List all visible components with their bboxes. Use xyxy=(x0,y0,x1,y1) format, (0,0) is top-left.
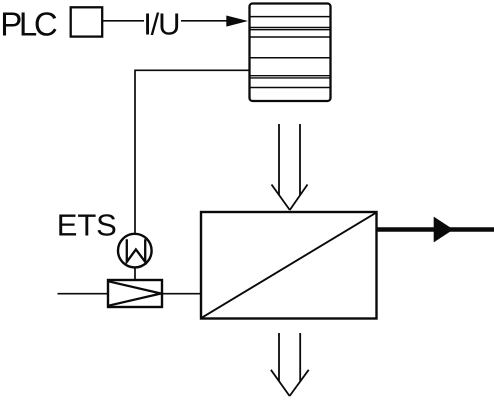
card internal line 5b xyxy=(251,77,330,79)
wire inlet to valve xyxy=(58,293,109,295)
valve triangle lower edge xyxy=(109,294,161,306)
hollow arrow bottom: right stem xyxy=(299,333,301,382)
wire square to I/U xyxy=(102,20,144,22)
card internal line 4 xyxy=(251,57,330,59)
svg-text:I/U: I/U xyxy=(143,7,180,42)
hollow arrow bottom: right barb xyxy=(290,370,309,396)
wire valve to heat exchanger xyxy=(162,293,201,295)
proportional valve body xyxy=(108,280,162,307)
heat exchanger box xyxy=(201,212,377,319)
ETS temperature sensor circle xyxy=(118,234,152,268)
PLC output block (small square) xyxy=(71,7,103,36)
amplifier card (multi-line box) xyxy=(250,4,331,102)
thick output arrowhead xyxy=(434,217,454,243)
svg-text:ETS: ETS xyxy=(57,207,117,242)
hollow arrow top: right barb xyxy=(290,185,308,211)
thick output line xyxy=(377,227,494,232)
wire sensor to valve xyxy=(134,268,136,281)
card internal line 2a xyxy=(251,27,330,29)
filled arrowhead into amplifier card xyxy=(226,16,248,27)
hollow arrow bottom: left barb xyxy=(271,370,290,396)
card internal line 1 xyxy=(251,16,330,18)
card internal line 5a xyxy=(251,75,330,77)
hollow arrow top: left barb xyxy=(272,185,290,211)
valve triangle upper edge xyxy=(109,281,161,293)
card internal line 6 xyxy=(251,87,330,89)
wire card to ETS sensor (horizontal) xyxy=(135,69,249,71)
hollow arrow bottom: left stem xyxy=(278,333,280,382)
wire card to ETS sensor (vertical) xyxy=(134,70,136,234)
hollow arrow top: right stem xyxy=(299,124,301,196)
W symbol inside sensor xyxy=(127,239,145,262)
wire I/U to amplifier card xyxy=(181,20,230,22)
heat exchanger diagonal xyxy=(202,213,376,318)
hollow arrow top: left stem xyxy=(278,124,280,196)
card internal line 2b xyxy=(251,29,330,31)
card internal line 3 xyxy=(251,36,330,38)
svg-text:PLC: PLC xyxy=(0,6,58,43)
